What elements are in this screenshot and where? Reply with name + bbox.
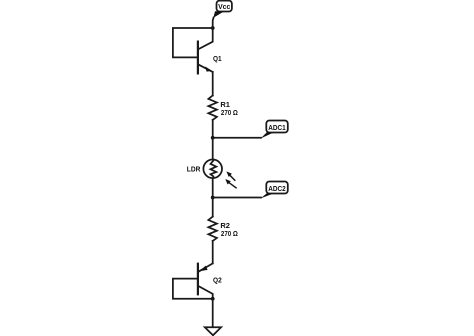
svg-text:270 Ω: 270 Ω: [221, 108, 238, 117]
wire Vcc tag to node A: [212, 17, 215, 28]
light arrow 1: [226, 171, 234, 180]
light arrow 2: [225, 179, 236, 188]
ground: [205, 327, 221, 335]
net label ADC2: [261, 182, 288, 199]
node A: Q1 collector junction: [211, 26, 215, 30]
label R1 value 270 ohm: [220, 100, 238, 117]
resistor R1: [208, 96, 217, 120]
node ADC2 junction: [211, 196, 215, 200]
label R2 value 270 ohm: [220, 221, 238, 238]
svg-text:Q1: Q1: [213, 54, 222, 63]
transistor Q2: [198, 263, 213, 298]
wire node ADC2 to R2: [212, 198, 214, 217]
node B: Q2 collector junction: [211, 297, 215, 301]
transistor Q1: [198, 28, 213, 73]
wire Q2 collector-base feedback loop: [173, 279, 213, 299]
wire node ADC1 to LDR: [212, 138, 214, 160]
wire node to ADC1 tag: [213, 137, 261, 139]
photoresistor LDR: [203, 160, 236, 188]
wire LDR to node ADC2: [212, 178, 214, 197]
svg-text:ADC1: ADC1: [268, 125, 286, 132]
wire R2 to Q2 emitter: [212, 241, 214, 264]
resistor R2: [208, 217, 217, 241]
wire Q1 collector-base feedback loop: [173, 28, 213, 57]
svg-text:Vcc: Vcc: [218, 4, 230, 11]
node ADC1 junction: [211, 136, 215, 140]
svg-text:ADC2: ADC2: [268, 186, 286, 193]
svg-text:Q2: Q2: [213, 275, 222, 284]
wire node to ADC2 tag: [213, 197, 261, 199]
wire Q1 emitter to R1: [212, 72, 214, 96]
svg-text:LDR: LDR: [187, 165, 201, 174]
power tag Vcc: [213, 1, 232, 18]
svg-text:270 Ω: 270 Ω: [221, 229, 238, 238]
wire R1 to node ADC1: [212, 120, 214, 138]
net label ADC1: [261, 121, 288, 139]
wire Q2 to ground: [212, 299, 214, 327]
